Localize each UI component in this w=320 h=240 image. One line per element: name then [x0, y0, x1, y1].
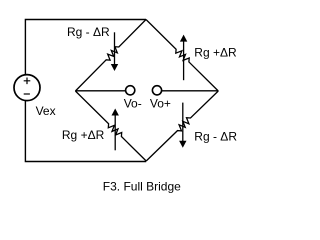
wire: node Vo- to left bridge node: [75, 90, 125, 92]
resistor Rg+dR top-right (bridge arm): [146, 20, 218, 92]
svg-text:Rg +ΔR: Rg +ΔR: [62, 128, 105, 142]
wire: bottom rail from source to bottom node: [25, 101, 146, 162]
svg-text:Rg +ΔR: Rg +ΔR: [194, 46, 237, 60]
arrow: decreasing R (bottom-right gauge): [179, 103, 186, 148]
svg-text:Rg - ΔR: Rg - ΔR: [194, 130, 237, 144]
arrow: increasing R (bottom-left gauge): [112, 109, 119, 151]
circuit: full Wheatstone bridge (F3): [0, 0, 250, 202]
arrow: decreasing R (top-left gauge): [111, 32, 118, 71]
terminal Vo+: [152, 86, 161, 95]
resistor Rg+dR bottom-left (bridge arm): [75, 91, 146, 161]
resistor Rg-dR bottom-right (bridge arm): [146, 91, 218, 161]
svg-text:Vex: Vex: [36, 104, 56, 118]
svg-text:Vo-: Vo-: [124, 96, 142, 110]
svg-text:Vo+: Vo+: [150, 96, 171, 110]
terminal Vo-: [126, 86, 135, 95]
arrow: increasing R (top-right gauge): [180, 35, 187, 81]
wire: node Vo+ to right bridge node: [162, 90, 219, 92]
wire: top rail from source to top node: [25, 20, 146, 75]
svg-text:Rg - ΔR: Rg - ΔR: [67, 25, 110, 39]
voltage source Vex: [14, 75, 40, 101]
resistor Rg-dR top-left (bridge arm): [75, 20, 146, 92]
svg-text:F3. Full Bridge: F3. Full Bridge: [103, 180, 181, 194]
